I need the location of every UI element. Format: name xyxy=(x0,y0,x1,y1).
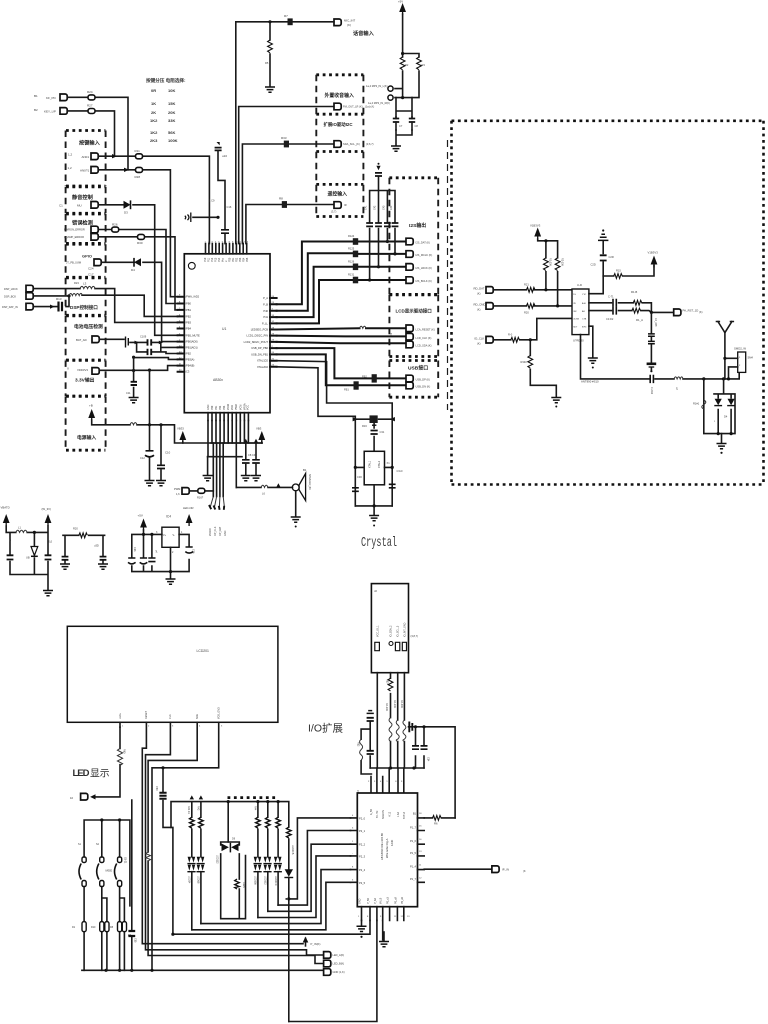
svg-text:R4-10K: R4-10K xyxy=(393,700,396,709)
svg-text:P1_5: P1_5 xyxy=(410,851,417,855)
svg-text:LED3CB: LED3CB xyxy=(291,845,294,855)
terminal LED backlight xyxy=(70,793,96,800)
svg-text:B 1 TR: B 1 TR xyxy=(376,810,379,818)
svg-text:C43: C43 xyxy=(382,205,385,210)
terminal USB2 xyxy=(406,382,430,389)
wire net LCD1 xyxy=(277,328,406,329)
svg-text:P_B: P_B xyxy=(263,302,268,306)
svg-text:VCM: VCM xyxy=(239,405,242,410)
svg-text:LED+: LED+ xyxy=(119,712,122,719)
svg-text:PWM: PWM xyxy=(235,404,238,410)
U1 bottom pin labels rotated xyxy=(207,403,250,410)
diode D4 xyxy=(131,258,141,272)
resistor RJ4 vertical xyxy=(357,739,363,760)
wire net USB1 xyxy=(277,348,406,378)
resistor RJ2 vertical xyxy=(393,700,399,742)
terminal MIC_IN xyxy=(334,19,355,28)
resistor RV1 vertical xyxy=(544,258,552,271)
svg-text:电池电压检测: 电池电压检测 xyxy=(74,323,103,330)
svg-text:C30: C30 xyxy=(357,475,362,479)
ground tap left of chain xyxy=(185,213,220,223)
svg-text:PB4(B): PB4(B) xyxy=(186,364,194,368)
svg-text:SMD2_W: SMD2_W xyxy=(734,347,746,351)
wire net B1 xyxy=(68,97,129,170)
svg-text:PB1: PB1 xyxy=(186,308,191,312)
LED D14 pair xyxy=(274,817,282,905)
svg-text:LED_B(K): LED_B(K) xyxy=(333,962,345,966)
terminal ERR1 xyxy=(91,226,98,233)
svg-text:XTAL2D2: XTAL2D2 xyxy=(257,365,269,369)
resistor R1B xyxy=(631,290,642,305)
terminal AN02 xyxy=(80,167,98,174)
wire net mp3 caps xyxy=(396,96,412,145)
resistor RV2 vertical xyxy=(555,258,563,271)
capacitor CA1 xyxy=(7,538,14,560)
svg-text:USB_DN_PB1: USB_DN_PB1 xyxy=(251,352,268,356)
label I/O扩展 xyxy=(308,722,344,735)
U1 right pin numbers xyxy=(272,296,275,367)
wire net U3 pin5 gnd xyxy=(588,326,598,368)
svg-text:IO_SDA_2: IO_SDA_2 xyxy=(390,625,393,637)
capacitor C8 xyxy=(409,117,419,130)
svg-text:GPIO: GPIO xyxy=(82,254,92,259)
capacitor CC3 xyxy=(148,550,157,562)
terminal PWM left xyxy=(174,487,189,496)
svg-text:C2D: C2D xyxy=(591,263,596,267)
svg-text:显示: 显示 xyxy=(90,767,110,779)
resistor RI2 dark xyxy=(348,247,358,258)
label LED显示 xyxy=(73,767,110,779)
capacitor C6 to gnd xyxy=(248,443,261,481)
resistor R24 xyxy=(87,90,95,100)
svg-text:R21: R21 xyxy=(524,283,529,287)
svg-text:扩展IO驱动I2C: 扩展IO驱动I2C xyxy=(324,121,354,128)
resistor R26 xyxy=(112,222,119,232)
resistor RL2 vertical xyxy=(197,806,204,857)
svg-text:IO_INT_GND: IO_INT_GND xyxy=(403,622,406,637)
svg-text:PB3: PB3 xyxy=(186,320,191,324)
terminal DSP3 xyxy=(2,303,33,310)
svg-text:C54: C54 xyxy=(427,757,430,762)
wire net LCDn5 xyxy=(82,722,324,972)
svg-text:5DT: 5DT xyxy=(573,326,578,328)
resistor R62 xyxy=(433,816,442,826)
wire net ID_CLK xyxy=(494,318,573,341)
ferrite FB2 dark xyxy=(344,381,359,391)
svg-text:I2S_MCLK (K): I2S_MCLK (K) xyxy=(416,253,433,257)
wire vertical V1 with cap to ground xyxy=(126,357,139,403)
terminal LCD1 xyxy=(406,325,435,332)
svg-text:I2S_BCLK (K): I2S_BCLK (K) xyxy=(416,279,432,283)
svg-text:P_A0: P_A0 xyxy=(374,897,377,904)
svg-text:P2_5: P2_5 xyxy=(359,881,366,885)
svg-text:1,6: 1,6 xyxy=(176,492,180,496)
ferrite R16 dark xyxy=(362,415,378,428)
svg-text:I2S_DAT (K): I2S_DAT (K) xyxy=(416,241,431,245)
svg-text:I2S输出: I2S输出 xyxy=(409,222,426,229)
svg-text:C16: C16 xyxy=(227,205,232,209)
label 话音输入 xyxy=(353,29,375,37)
svg-text:VBATD: VBATD xyxy=(1,506,10,510)
svg-text:错误检测: 错误检测 xyxy=(72,219,93,227)
LCD module body xyxy=(67,626,278,722)
svg-text:LED312: LED312 xyxy=(264,876,267,885)
wire net LED top rail xyxy=(171,795,289,842)
LCD pin labels rotated xyxy=(119,707,221,719)
svg-text:LCD2_SDI2C_POUT: LCD2_SDI2C_POUT xyxy=(244,340,269,344)
resistor R33 dark xyxy=(281,136,289,147)
dashed box 电源输入 xyxy=(66,396,106,450)
svg-text:C4_3PF: C4_3PF xyxy=(654,318,657,327)
svg-text:P1_4: P1_4 xyxy=(410,865,417,869)
svg-text:DSP_DAT_IN: DSP_DAT_IN xyxy=(2,305,18,309)
dashed box fragment below LCD xyxy=(228,796,279,799)
svg-text:10: 10 xyxy=(70,796,74,800)
svg-text:C3: C3 xyxy=(186,370,190,374)
capacitor CB2 xyxy=(94,544,106,560)
svg-text:P0_x3: P0_x3 xyxy=(387,897,390,904)
svg-text:P41: P41 xyxy=(263,315,268,319)
svg-text:USB_DP_PB2: USB_DP_PB2 xyxy=(251,346,268,350)
svg-text:D4: D4 xyxy=(724,415,728,419)
svg-text:GND: GND xyxy=(359,898,362,904)
svg-text:20K: 20K xyxy=(168,110,175,115)
svg-text:P2_4: P2_4 xyxy=(359,868,366,872)
svg-text:Crystal: Crystal xyxy=(361,535,397,551)
wire net opto top rail xyxy=(84,818,130,970)
svg-text:U?RD30: U?RD30 xyxy=(573,339,584,343)
svg-text:B IT14: B IT14 xyxy=(403,811,406,819)
svg-text:PB0(AD0): PB0(AD0) xyxy=(186,340,198,344)
svg-text:ID_CLK: ID_CLK xyxy=(475,337,485,341)
wire net LCDn3 xyxy=(146,722,324,955)
resistor R19 xyxy=(508,333,519,343)
wire net U2 bottom rail xyxy=(173,920,383,940)
svg-text:电源输入: 电源输入 xyxy=(77,434,96,441)
svg-text:KF_PD: KF_PD xyxy=(46,96,57,100)
inductor LL1 xyxy=(360,326,367,328)
svg-text:1,2: 1,2 xyxy=(68,153,73,157)
wire net blockA xyxy=(6,526,53,596)
resistor R20b xyxy=(73,527,87,538)
wire net LCD2 xyxy=(277,332,406,336)
svg-text:C2R: C2R xyxy=(609,255,614,259)
inductor RF brace xyxy=(693,400,706,409)
svg-text:P1_7: P1_7 xyxy=(410,826,417,830)
svg-text:AB30x: AB30x xyxy=(213,378,223,382)
svg-text:外置收音输入: 外置收音输入 xyxy=(324,92,354,99)
mid dashed box 收音/I2C/遥控 xyxy=(316,75,363,217)
ground U2 xyxy=(357,920,367,938)
svg-text:P31: P31 xyxy=(215,405,218,410)
svg-text:VCC_IO_1: VCC_IO_1 xyxy=(376,625,379,637)
dashed box 按键输入 xyxy=(66,131,106,187)
label Crystal xyxy=(361,535,397,551)
resistor R5 vertical with ground xyxy=(265,22,275,92)
ferrite FB1 dark xyxy=(362,374,377,382)
capacitor chain down C27 xyxy=(647,312,657,372)
resistor R8 dark xyxy=(279,197,287,208)
svg-text:LED3CD: LED3CD xyxy=(274,876,277,886)
resistor RJ0 vertical xyxy=(386,678,393,691)
svg-text:X1: X1 xyxy=(387,461,391,465)
svg-text:LED_A(K): LED_A(K) xyxy=(333,953,345,957)
svg-text:C50: C50 xyxy=(155,786,158,791)
svg-text:RESET: RESET xyxy=(145,710,148,719)
capacitor left rail xyxy=(352,488,359,492)
svg-text:LED68: LED68 xyxy=(197,876,200,884)
capacitor C13 polarized xyxy=(56,297,62,312)
svg-text:R52: R52 xyxy=(357,742,360,747)
dashed box LCD显示驱动接口 xyxy=(389,295,438,357)
svg-text:C24: C24 xyxy=(88,267,94,271)
vcc arrow VBAT left xyxy=(177,427,186,444)
ESD diode cell xyxy=(704,379,735,435)
ground mp3 xyxy=(391,146,401,151)
svg-text:0R: 0R xyxy=(151,88,156,93)
svg-text:VDD3V3: VDD3V3 xyxy=(77,368,88,372)
svg-text:P30: P30 xyxy=(211,405,214,410)
diode D3 xyxy=(124,200,131,214)
svg-text:R42: R42 xyxy=(197,806,200,811)
svg-text:C7B: C7B xyxy=(582,319,587,321)
svg-text:IC4: IC4 xyxy=(166,515,171,519)
svg-text:R1.B: R1.B xyxy=(631,290,637,294)
svg-text:ANT890 #S10: ANT890 #S10 xyxy=(581,380,599,384)
resistor RI4 dark xyxy=(348,273,358,284)
svg-text:LCD_CLK (K): LCD_CLK (K) xyxy=(416,336,432,340)
svg-text:R20: R20 xyxy=(524,311,529,315)
svg-text:V-: V- xyxy=(173,534,175,537)
terminal ERR2 xyxy=(91,234,98,241)
svg-text:C31: C31 xyxy=(380,430,385,434)
wire net I2S4 xyxy=(277,278,406,323)
wire net I2S3 xyxy=(277,265,406,317)
svg-text:Wire turbo IOg.A: Wire turbo IOg.A xyxy=(385,838,389,858)
svg-text:RD_CMD: RD_CMD xyxy=(474,303,486,307)
terminal BAT_AD xyxy=(76,336,99,343)
wire net J2 bottom rail xyxy=(370,766,424,769)
svg-text:FB1: FB1 xyxy=(344,388,349,392)
svg-text:AB 18030 IOE x14S B0: AB 18030 IOE x14S B0 xyxy=(380,832,384,860)
wire net DSP2 xyxy=(34,294,178,316)
svg-text:C3.D2: C3.D2 xyxy=(606,317,614,321)
svg-text:PB0: PB0 xyxy=(186,302,191,306)
resistor RB1 pill xyxy=(72,922,86,932)
capacitor C2D series xyxy=(650,375,653,395)
terminal I2S2 xyxy=(406,251,432,258)
svg-text:PWA_/AD2: PWA_/AD2 xyxy=(186,295,200,299)
svg-text:PB5_MUTE: PB5_MUTE xyxy=(186,333,200,337)
svg-text:按键分压 电阻选择:: 按键分压 电阻选择: xyxy=(146,77,186,84)
svg-text:VDD: VDD xyxy=(231,405,234,410)
svg-text:SDA_SCL_(K): SDA_SCL_(K) xyxy=(343,142,360,146)
svg-text:IO_SCL_3: IO_SCL_3 xyxy=(397,625,400,637)
wire net U2R5 IP_IN xyxy=(424,868,492,870)
LED D13 pair xyxy=(263,817,271,911)
resistor RL1 vertical xyxy=(187,806,194,857)
svg-text:静音控制: 静音控制 xyxy=(72,193,93,201)
capacitor C41 xyxy=(365,205,374,226)
wire net J2 right caps xyxy=(409,722,456,818)
RF IC U3 body xyxy=(572,283,589,343)
LED D10 pair xyxy=(187,857,195,930)
wire net IR remote xyxy=(246,205,334,244)
terminal FM xyxy=(334,103,374,110)
svg-text:MDE: MDE xyxy=(106,869,113,873)
ground speaker xyxy=(291,491,301,528)
terminal I2C xyxy=(334,141,374,148)
svg-text:P32: P32 xyxy=(219,405,222,410)
wire net PB4 row xyxy=(132,356,178,360)
capacitor C42 xyxy=(373,205,382,226)
terminal RD_CMD xyxy=(474,303,494,312)
inductor L5 xyxy=(130,423,137,425)
svg-text:DSP_BCK: DSP_BCK xyxy=(4,294,16,298)
svg-text:X: X xyxy=(67,366,69,370)
connector J2 body xyxy=(371,584,418,673)
svg-text:J2: J2 xyxy=(374,589,377,593)
svg-text:C-2D3: C-2D3 xyxy=(650,387,653,395)
svg-text:P0_x8: P0_x8 xyxy=(401,897,404,904)
svg-text:AN0?1: AN0?1 xyxy=(80,169,90,173)
svg-text:C7: C7 xyxy=(399,124,403,128)
matching box T1 xyxy=(723,347,753,381)
svg-text:LED34: LED34 xyxy=(188,876,191,884)
svg-text:XTAL1D2: XTAL1D2 xyxy=(257,359,269,363)
svg-text:1,2: 1,2 xyxy=(68,166,73,170)
back-to-back diodes cell xyxy=(216,838,246,919)
svg-text:话音输入: 话音输入 xyxy=(353,29,375,37)
resistor R3 vertical xyxy=(417,57,426,70)
op-amp U1 body xyxy=(184,254,270,413)
terminal DSP2 xyxy=(4,293,33,300)
svg-text:100K: 100K xyxy=(168,138,178,143)
svg-text:1230: 1230 xyxy=(390,839,394,846)
svg-text:PB1(AD1): PB1(AD1) xyxy=(186,345,198,349)
svg-text:GND: GND xyxy=(207,404,210,410)
svg-text:DSP_LRCK: DSP_LRCK xyxy=(4,287,18,291)
wire net U3 pin3 right xyxy=(589,311,674,314)
U1 left pin numbers xyxy=(179,295,182,372)
svg-text:遥控输入: 遥控输入 xyxy=(328,190,348,197)
svg-text:L3: L3 xyxy=(83,282,87,286)
svg-text:H 12: H 12 xyxy=(388,811,391,817)
svg-text:LCD1_DSI2C_PIN: LCD1_DSI2C_PIN xyxy=(247,334,269,338)
svg-text:R50: R50 xyxy=(386,679,389,684)
dashed box I2S输出 xyxy=(389,178,438,295)
svg-text:C35: C35 xyxy=(192,549,195,554)
capacitor CC1 electrolytic xyxy=(128,547,136,564)
svg-text:R20: R20 xyxy=(73,527,78,531)
svg-text:P1_6: P1_6 xyxy=(410,839,417,843)
svg-text:R-0: R-0 xyxy=(508,333,513,337)
resistor RJ1 vertical xyxy=(385,703,392,742)
capacitor C20 pair with ground up xyxy=(591,229,614,276)
wire net MIC xyxy=(236,20,334,243)
svg-text:XTAL2: XTAL2 xyxy=(378,460,381,468)
connector circles MP3 xyxy=(366,84,393,105)
svg-text:R1#1: R1#1 xyxy=(693,402,700,406)
U1 right pin stubs xyxy=(270,298,277,367)
svg-text:P0_x9: P0_x9 xyxy=(394,897,397,904)
resistor R7 dark xyxy=(284,14,293,25)
svg-text:IP_IN: IP_IN xyxy=(502,868,509,872)
svg-text:(K): (K) xyxy=(477,292,481,296)
svg-text:MU: MU xyxy=(77,204,82,208)
wire net GP xyxy=(102,262,178,341)
inductor L4 xyxy=(69,293,82,295)
svg-text:A_B0: A_B0 xyxy=(370,808,373,815)
svg-text:B2: B2 xyxy=(34,108,38,112)
U2 top pin labels xyxy=(370,808,406,819)
svg-text:VDDIO: VDDIO xyxy=(209,528,212,536)
svg-text:LED356: LED356 xyxy=(254,876,257,885)
svg-text:(K): (K) xyxy=(477,308,481,312)
terminal B2 KEY_UP xyxy=(34,108,67,115)
svg-text:1a,4 MP3_IN_L(K): 1a,4 MP3_IN_L(K) xyxy=(366,84,388,88)
svg-text:R15: R15 xyxy=(616,269,621,273)
vcc arrow 3V blockA xyxy=(42,507,52,526)
wire net opto-LED link rails xyxy=(171,933,174,936)
svg-text:DP_CLK: DP_CLK xyxy=(214,526,217,536)
resistor R27 xyxy=(87,104,95,114)
svg-text:B7G: B7G xyxy=(582,326,587,328)
transistor Q2 xyxy=(96,843,104,887)
resistor RL vertical xyxy=(117,748,125,765)
svg-text:R3: R3 xyxy=(422,63,426,67)
resistor RB4 pill xyxy=(118,922,122,932)
capacitor C44 xyxy=(390,205,398,226)
crystal rails xyxy=(354,419,394,506)
dashed box DSP控制接口 xyxy=(66,278,106,316)
svg-text:P2_0: P2_0 xyxy=(359,817,366,821)
terminal I2S4 xyxy=(406,277,432,284)
vcc arrow +5V blockC xyxy=(138,514,147,531)
svg-text:C1: C1 xyxy=(59,204,63,208)
capacitor C55 xyxy=(128,800,136,970)
terminal GP xyxy=(94,259,101,266)
wire net bottom bundle xyxy=(208,421,262,497)
resistor R28 xyxy=(135,167,143,178)
svg-text:1a,4 MP3_IN_R(K): 1a,4 MP3_IN_R(K) xyxy=(368,101,390,105)
inductor L3 xyxy=(80,282,95,289)
ground under R40 xyxy=(551,398,561,408)
svg-text:R60: R60 xyxy=(123,749,126,754)
resistor RL3 vertical xyxy=(254,806,261,857)
capacitor C31 polarized xyxy=(371,419,385,451)
svg-text:(W_3V): (W_3V) xyxy=(42,507,52,511)
resistor RB2 pill xyxy=(91,922,104,932)
wire net U3 pin2 right xyxy=(589,303,652,313)
terminal I2S1 xyxy=(406,238,430,245)
svg-text:(K: (K xyxy=(523,869,526,873)
capacitor loop C21 C22 xyxy=(135,335,178,356)
wire net LCDn2 xyxy=(142,722,303,943)
svg-text:P2_3: P2_3 xyxy=(359,854,366,858)
wire net I2S2 xyxy=(277,252,406,311)
svg-text:V1B3V3: V1B3V3 xyxy=(530,224,541,228)
terminal B1 KEY_PD xyxy=(34,94,67,101)
terminal LCD3 xyxy=(406,341,432,348)
svg-text:PWM: PWM xyxy=(174,487,180,491)
svg-text:(C)AMP_ERROR: (C)AMP_ERROR xyxy=(64,235,84,239)
svg-text:R10: R10 xyxy=(91,926,96,929)
svg-text:C17: C17 xyxy=(88,273,94,277)
resistor R2 vertical xyxy=(400,57,409,70)
svg-text:R340: R340 xyxy=(521,360,528,364)
vcc arrow power input xyxy=(88,409,95,421)
